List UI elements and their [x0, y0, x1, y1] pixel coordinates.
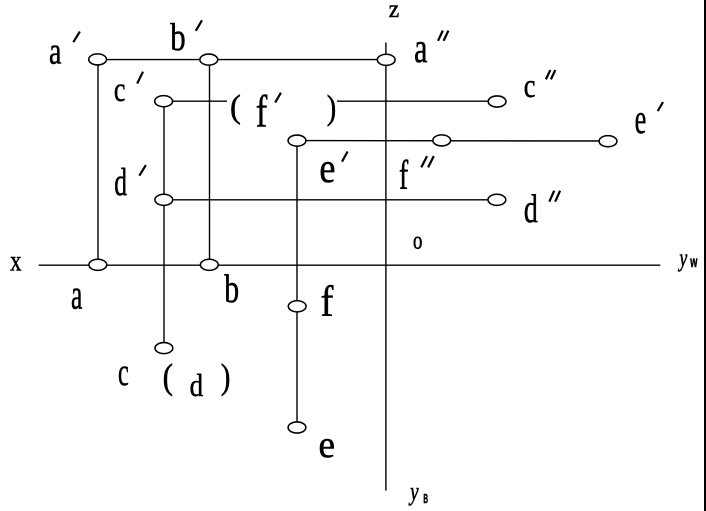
label b' prime	[196, 20, 202, 31]
svg-text:b: b	[224, 267, 239, 311]
svg-text:e: e	[635, 94, 647, 142]
svg-text:): )	[327, 87, 336, 127]
svg-text:(: (	[230, 89, 241, 125]
point e' (front)	[288, 135, 306, 146]
projection line b'-b	[209, 60, 211, 265]
point b	[200, 259, 218, 270]
svg-text:(: (	[163, 358, 173, 397]
projection line e'-f-e	[296, 141, 298, 428]
point d'	[155, 194, 173, 205]
label d' prime	[139, 165, 146, 176]
wire a'-b'-a" horizontal	[98, 59, 386, 61]
label f" double prime 1	[421, 156, 427, 167]
x axis	[39, 264, 661, 266]
svg-text:f: f	[399, 152, 408, 198]
point c	[155, 343, 173, 354]
label (f') prime	[275, 93, 281, 103]
svg-text:b: b	[170, 14, 185, 59]
svg-text:z: z	[389, 0, 400, 23]
svg-text:w: w	[690, 252, 698, 270]
point c'	[155, 96, 173, 107]
point f"	[433, 135, 451, 146]
svg-text:c: c	[118, 351, 129, 394]
svg-text:y: y	[408, 476, 419, 506]
wire e'-f"-e' horizontal	[297, 140, 608, 142]
svg-text:f: f	[256, 86, 268, 137]
svg-text:c: c	[524, 67, 536, 105]
wire d'-d" horizontal	[164, 199, 497, 201]
point b'	[200, 54, 218, 65]
svg-text:e: e	[319, 144, 335, 192]
svg-text:B: B	[423, 493, 428, 507]
label a" double prime 2	[444, 31, 449, 41]
point e' (side)	[599, 136, 617, 147]
svg-text:y: y	[678, 244, 688, 272]
svg-text:d: d	[524, 187, 538, 231]
projection line a'-a	[97, 60, 99, 265]
point a	[89, 259, 107, 270]
svg-text:): )	[221, 358, 231, 397]
point d"	[488, 194, 506, 205]
point a"	[377, 54, 395, 65]
wire (f') to c" segment	[337, 100, 497, 102]
svg-text:f: f	[321, 276, 334, 325]
label c" double prime 2	[551, 70, 555, 79]
label c" double prime 1	[546, 70, 550, 79]
label a" double prime 1	[438, 31, 443, 41]
label d" double prime 1	[549, 191, 554, 202]
svg-text:e: e	[318, 424, 335, 467]
svg-text:c: c	[114, 70, 126, 108]
label d" double prime 2	[555, 191, 560, 202]
label e' (side) prime	[658, 102, 663, 111]
projection line c'-d'-c	[163, 101, 165, 348]
label a' prime	[73, 32, 80, 43]
point f	[288, 301, 306, 312]
point a'	[89, 54, 107, 65]
svg-text:d: d	[190, 369, 204, 403]
svg-text:x: x	[10, 243, 21, 277]
svg-text:d: d	[114, 162, 127, 205]
svg-text:a: a	[414, 24, 427, 71]
svg-text:a: a	[71, 271, 82, 318]
point c"	[488, 96, 506, 107]
frame right border	[704, 0, 706, 511]
label e' (front) prime	[342, 152, 348, 162]
label f" double prime 2	[428, 156, 434, 167]
wire c' to (f') segment	[164, 100, 227, 102]
z / y-h axis	[385, 43, 387, 491]
svg-text:o: o	[413, 226, 422, 255]
point e	[288, 422, 306, 433]
svg-text:a: a	[49, 30, 61, 72]
label c' prime	[137, 72, 143, 84]
